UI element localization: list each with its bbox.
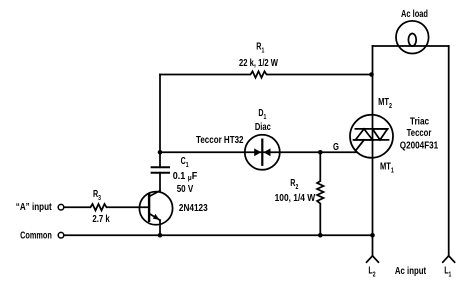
- svg-text:Common: Common: [20, 229, 52, 241]
- label: A input: [16, 201, 52, 212]
- label: D1: [258, 106, 266, 121]
- svg-text:MT2: MT2: [378, 96, 392, 110]
- label: MT1: [380, 160, 394, 174]
- wire: common: [64, 234, 373, 236]
- svg-text:Q2004F31: Q2004F31: [400, 138, 438, 150]
- label: Teccor: [407, 127, 432, 138]
- svg-text:L1: L1: [444, 264, 452, 279]
- svg-text:22 k, 1/2 W: 22 k, 1/2 W: [239, 57, 278, 68]
- label: Common: [20, 229, 52, 241]
- svg-text:Ac input: Ac input: [395, 265, 426, 276]
- svg-text:2.7 k: 2.7 k: [92, 213, 110, 224]
- terminal: common: [58, 232, 64, 238]
- svg-text:50 V: 50 V: [177, 183, 194, 194]
- transistor Q1 2N4123: [139, 191, 172, 236]
- svg-text:R2: R2: [290, 177, 298, 192]
- node: common to left vertical junction: [370, 233, 375, 238]
- wire: top AC horizontal: [373, 45, 449, 47]
- node: emitter to common junction: [158, 233, 163, 238]
- triac U1: [350, 115, 393, 158]
- svg-text:0.1 μF: 0.1 μF: [173, 171, 198, 183]
- svg-text:“A” input: “A” input: [16, 201, 52, 212]
- label: Diac: [255, 121, 271, 132]
- label: 2N4123: [179, 201, 208, 213]
- label: R2 value: [275, 192, 316, 204]
- wire: left vertical from R1 down to C1: [159, 75, 161, 168]
- label: C1 voltage: [177, 183, 194, 194]
- svg-text:R3: R3: [93, 187, 101, 202]
- svg-text:Diac: Diac: [255, 121, 271, 132]
- label: G: [333, 141, 339, 152]
- wire: right tall vertical: [448, 46, 450, 256]
- svg-text:MT1: MT1: [380, 160, 394, 174]
- node: junction C1 / diac wire: [158, 150, 163, 155]
- svg-text:Ac load: Ac load: [401, 8, 428, 20]
- svg-text:100, 1/4 W: 100, 1/4 W: [275, 192, 316, 204]
- svg-text:L2: L2: [368, 264, 376, 279]
- label: Teccor HT32: [196, 134, 243, 145]
- svg-text:C1: C1: [181, 154, 189, 169]
- terminal fork L1: [443, 256, 455, 262]
- node: R2 to common junction: [318, 233, 323, 238]
- label: R1 value: [239, 57, 278, 68]
- capacitor C1: [152, 167, 169, 191]
- label: Ac input: [395, 265, 426, 276]
- resistor R2 (vertical): [317, 152, 323, 235]
- diac D1: [245, 135, 280, 170]
- svg-text:G: G: [333, 141, 339, 152]
- label: Ac load: [401, 8, 428, 20]
- label: Q2004F31: [400, 138, 438, 150]
- wire: diac horizontal (gate wire): [160, 151, 356, 153]
- label: C1 value: [173, 171, 198, 183]
- terminal fork L2: [367, 256, 379, 262]
- svg-text:Teccor: Teccor: [407, 127, 432, 138]
- resistor R3: [64, 204, 149, 210]
- label: C1: [181, 154, 189, 169]
- label: MT2: [378, 96, 392, 110]
- label: R3 value: [92, 213, 110, 224]
- node: R1 to left vertical junction: [369, 72, 374, 77]
- svg-text:Teccor HT32: Teccor HT32: [196, 134, 243, 145]
- label: L2: [368, 264, 376, 279]
- label: R3: [93, 187, 101, 202]
- label: R1: [256, 40, 264, 55]
- node: gate / R2 junction: [318, 150, 323, 155]
- svg-text:R1: R1: [256, 40, 264, 55]
- lamp AC load: [396, 21, 429, 54]
- svg-text:2N4123: 2N4123: [179, 201, 208, 213]
- terminal: A input: [58, 204, 64, 210]
- svg-text:D1: D1: [258, 106, 266, 121]
- wire: left tall vertical (MT2-MT1 path): [372, 46, 374, 256]
- resistor R1: [160, 71, 373, 77]
- label: Triac: [410, 116, 429, 128]
- label: L1: [444, 264, 452, 279]
- label: R2: [290, 177, 298, 192]
